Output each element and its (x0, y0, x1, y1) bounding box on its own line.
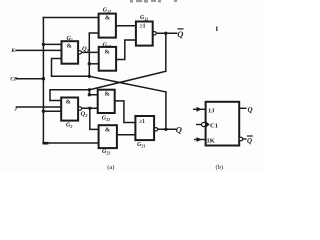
gate G12 box (99, 14, 116, 38)
junction dot Qbarfb-G22 (88, 93, 91, 96)
svg-text:(b): (b) (216, 164, 224, 171)
svg-text:&: & (105, 127, 110, 134)
svg-text:Q1: Q1 (82, 45, 89, 53)
wire G12 output to G11 (116, 25, 136, 27)
junction dot Qbar node (164, 32, 167, 35)
svg-text:Q: Q (248, 106, 253, 114)
svg-text:CP: CP (10, 76, 18, 82)
gate G22 box (98, 90, 115, 113)
wire G1 feedback loop (52, 59, 90, 77)
wire Q feedback branch to G13 (89, 63, 98, 65)
wire G11 output to Qbar (156, 32, 176, 34)
svg-text:&: & (105, 91, 110, 98)
svg-text:J: J (13, 106, 17, 112)
junction dot CP-G1 (42, 43, 45, 46)
bubble G11 output (153, 32, 156, 35)
svg-text:K: K (10, 48, 16, 54)
junction dot Qfb-loop (88, 75, 91, 78)
wire CP branch to G2 (43, 110, 61, 112)
bubble FF C1 input (202, 122, 206, 126)
svg-text:G11: G11 (140, 15, 148, 22)
gate G1 box (62, 41, 79, 64)
wire CP branch to G1 (43, 43, 61, 45)
svg-text:G2: G2 (66, 123, 72, 130)
wire FF C1 input (196, 124, 202, 126)
junction dot CP input (42, 77, 45, 80)
overbar of Qbar output (178, 28, 184, 29)
arrowhead FF K (197, 137, 203, 142)
junction dot Qfb-G13 (88, 62, 91, 65)
bubble G21 output (154, 128, 157, 131)
wire FF Qbar output (243, 138, 247, 140)
bubble G1 output (78, 51, 81, 54)
svg-text:1J: 1J (208, 108, 215, 115)
wire J input (17, 106, 62, 108)
wire Qbar feedback to G22 (89, 90, 97, 95)
junction dot Qbarfb-loop (88, 88, 91, 91)
stray scan speck (216, 27, 218, 32)
overbar of FF Qbar (247, 135, 253, 136)
wire Q1 to G13 (81, 51, 98, 53)
wire G13 output to G11 (116, 40, 136, 60)
wire FF Q output (239, 107, 246, 109)
wire G22 output to G21 (115, 101, 136, 123)
svg-text:G12: G12 (103, 8, 111, 15)
wire G21 output to Q (158, 128, 176, 130)
gate G2 box (61, 98, 78, 121)
flip-flop symbol box (206, 102, 240, 146)
wire Q vertical (165, 92, 167, 129)
gate G23 box (99, 125, 117, 148)
wire CP top rail (43, 17, 98, 19)
gate G11 box (136, 22, 153, 46)
wire CP vertical bus (42, 18, 44, 144)
dynamic indicator FF C1 (206, 121, 210, 127)
junction dot Q2 (88, 107, 91, 110)
wire FF K input (194, 139, 206, 141)
bubble G2 output (78, 107, 81, 110)
svg-text:G13: G13 (103, 42, 111, 49)
wire CP bottom rail (43, 142, 98, 144)
wire G2 feedback loop (50, 90, 89, 101)
svg-text:≥1: ≥1 (140, 24, 146, 30)
bubble FF Qbar output (239, 137, 243, 141)
wire Qbar feedback diagonal (89, 71, 165, 90)
gate G13 box (99, 47, 116, 71)
svg-text:Q: Q (177, 29, 183, 39)
svg-text:&: & (105, 15, 110, 22)
svg-text:Q: Q (247, 137, 252, 145)
wire Q2 to G22 (82, 107, 98, 109)
svg-text:G21: G21 (137, 142, 145, 149)
svg-text:G1: G1 (67, 36, 73, 43)
svg-text:≥1: ≥1 (139, 119, 145, 125)
wire Qbar vertical (165, 33, 167, 71)
svg-text:C1: C1 (210, 123, 218, 130)
wire Q feedback vertical to G12 (89, 33, 98, 76)
svg-text:Q2: Q2 (81, 110, 89, 118)
svg-text:(a): (a) (107, 164, 114, 171)
wire Q feedback diagonal (89, 76, 166, 92)
wire FF J input (193, 108, 206, 110)
wire G23 output to G21 (117, 134, 135, 136)
cropped text fragment top (130, 0, 133, 3)
svg-text:&: & (66, 99, 71, 106)
wire CP input (17, 78, 44, 80)
arrowhead FF J (197, 107, 203, 112)
wire Q2 branch to G23 (90, 108, 99, 129)
gate G21 box (135, 116, 154, 140)
svg-text:G22: G22 (102, 115, 110, 122)
junction dot CP-G2 (42, 110, 45, 113)
wire K input (16, 49, 62, 51)
svg-text:G23: G23 (102, 149, 110, 156)
svg-text:Q: Q (176, 125, 182, 135)
corner ink blob (42, 142, 48, 145)
junction dot Q node (164, 128, 167, 131)
svg-text:&: & (105, 49, 110, 56)
svg-text:&: & (67, 43, 72, 50)
svg-text:1K: 1K (207, 138, 215, 145)
